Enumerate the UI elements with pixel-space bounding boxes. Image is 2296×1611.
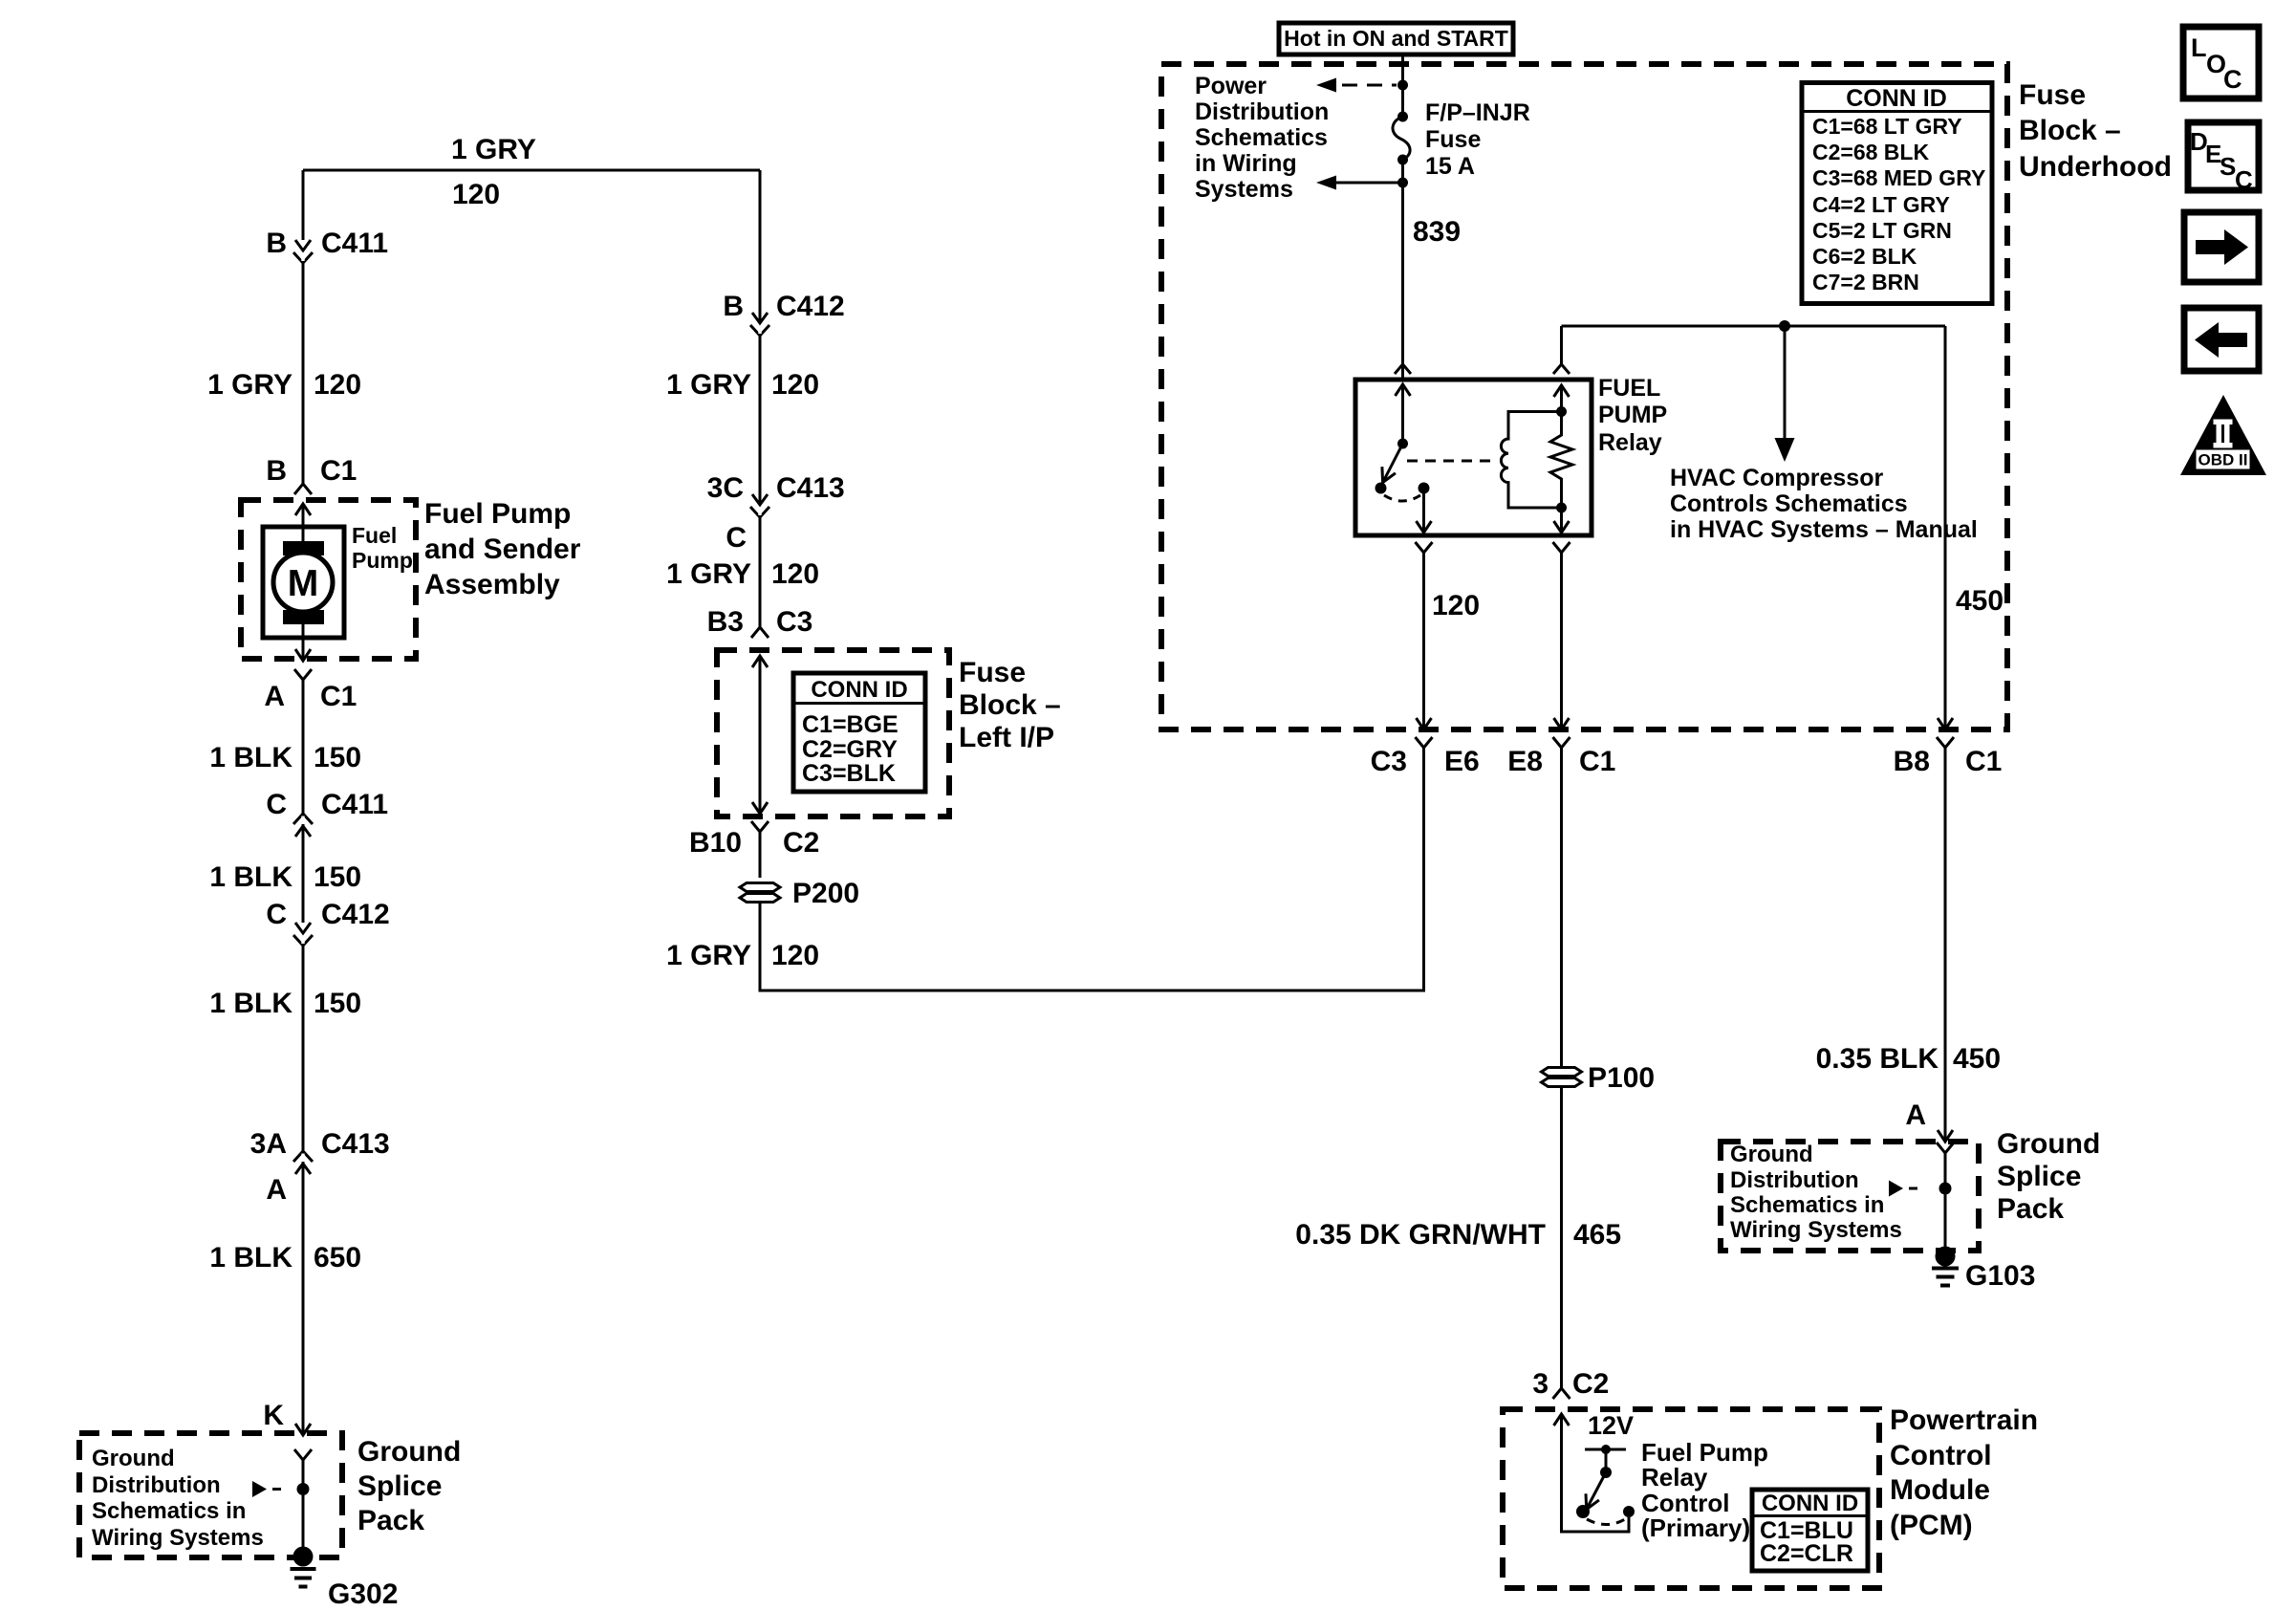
svg-text:C2=GRY: C2=GRY (802, 736, 898, 763)
svg-text:F/P–INJR: F/P–INJR (1425, 99, 1530, 126)
svg-text:G103: G103 (1965, 1260, 2035, 1292)
relay coil (1501, 412, 1561, 509)
svg-text:B: B (723, 291, 744, 322)
wire relay left output down to box edge (1417, 553, 1432, 729)
svg-text:C3: C3 (776, 606, 812, 638)
relay switch dashed arc (1384, 495, 1420, 501)
svg-text:Control: Control (1890, 1440, 1992, 1471)
svg-text:Fuse: Fuse (2019, 79, 2086, 111)
wire 839 down to relay (1401, 183, 1404, 380)
fuel pump output arrow down (295, 638, 311, 661)
switch blade PCM with arrowhead (1586, 1472, 1606, 1510)
CONN ID table (underhood) (1802, 83, 1992, 304)
motor brush top (283, 541, 324, 555)
svg-text:1 GRY: 1 GRY (207, 369, 292, 401)
12V supply bar (1585, 1448, 1626, 1451)
svg-text:C: C (726, 522, 747, 554)
fuel pump assembly dashed box (241, 500, 416, 659)
svg-text:A: A (264, 681, 285, 712)
junction dot branch (1397, 178, 1408, 188)
ground dot G302 (293, 1547, 314, 1567)
fuse dot bottom (1397, 155, 1408, 165)
PCM pin arrow and internal wire (1554, 1414, 1630, 1532)
svg-text:Distribution: Distribution (1730, 1167, 1859, 1193)
svg-text:Distribution: Distribution (1195, 98, 1329, 125)
svg-text:Schematics: Schematics (1195, 124, 1328, 151)
svg-text:450: 450 (1953, 1043, 2001, 1075)
fuse block internal wire with arrows (752, 656, 768, 814)
svg-text:C2: C2 (1572, 1368, 1609, 1400)
wire horizontal to B8 drop (1562, 325, 1946, 328)
svg-text:12V: 12V (1588, 1411, 1634, 1440)
svg-text:P200: P200 (792, 878, 859, 909)
svg-text:15 A: 15 A (1425, 153, 1475, 180)
svg-text:C412: C412 (776, 291, 845, 322)
CONN ID table (PCM) (1752, 1490, 1868, 1571)
svg-text:in Wiring: in Wiring (1195, 150, 1297, 177)
svg-text:120: 120 (1432, 590, 1480, 621)
svg-text:L: L (2191, 33, 2207, 62)
svg-text:PUMP: PUMP (1598, 402, 1667, 428)
svg-text:OBD II: OBD II (2199, 451, 2248, 469)
relay coil dot bottom (1556, 503, 1567, 513)
svg-text:C5=2 LT GRN: C5=2 LT GRN (1812, 218, 1952, 243)
grommet P100 (1542, 1068, 1582, 1087)
svg-text:3A: 3A (250, 1128, 287, 1160)
svg-text:150: 150 (314, 988, 361, 1019)
connector E8 C1 at box edge (1553, 737, 1570, 748)
svg-text:Block –: Block – (2019, 115, 2121, 146)
switch stem (1605, 1449, 1608, 1472)
ground symbol G103 (1932, 1269, 1959, 1286)
svg-text:450: 450 (1956, 585, 2004, 617)
switch pivot dot PCM (1600, 1467, 1612, 1478)
wire relay right pin up to horizontal (1560, 326, 1563, 364)
svg-text:120: 120 (771, 369, 819, 401)
connector B8 C1 at box edge (1937, 737, 1954, 748)
svg-text:CONN ID: CONN ID (1762, 1491, 1858, 1516)
svg-text:C1: C1 (320, 455, 357, 487)
icon right arrow box (2184, 212, 2259, 282)
connector C411 (B) (293, 240, 313, 263)
svg-text:Wiring Systems: Wiring Systems (1730, 1217, 1902, 1243)
svg-text:C3=BLK: C3=BLK (802, 760, 896, 787)
icon DESC box (2188, 122, 2259, 190)
svg-text:1 GRY: 1 GRY (666, 940, 751, 971)
solid branch to power distribution (1336, 182, 1403, 185)
wire col1 A to C411 (302, 680, 305, 826)
grommet P200 (740, 883, 780, 903)
CONN ID table (left I/P) (793, 673, 925, 792)
svg-text:C6=2 BLK: C6=2 BLK (1812, 244, 1917, 269)
connector B3 C3 chevron (751, 627, 769, 638)
svg-text:Schematics in: Schematics in (1730, 1192, 1884, 1218)
junction dot HVAC (1779, 320, 1790, 332)
svg-text:Pack: Pack (1997, 1193, 2064, 1225)
svg-text:(Primary): (Primary) (1641, 1513, 1750, 1542)
wire col1 C411 to C412 (302, 814, 305, 923)
svg-text:Ground: Ground (357, 1436, 461, 1468)
relay switch blade with arrowhead (1382, 444, 1403, 483)
wire B8 down into G103 (1938, 748, 1953, 1142)
wire col1 upper segment (302, 170, 305, 240)
svg-text:Controls Schematics: Controls Schematics (1670, 490, 1908, 517)
relay output chevron Y right (1553, 542, 1570, 553)
svg-text:B3: B3 (707, 606, 744, 638)
svg-text:1 GRY: 1 GRY (666, 369, 751, 401)
connector C413 (3C) down (750, 494, 769, 517)
PCM dashed box (1503, 1409, 1879, 1588)
svg-text:Distribution: Distribution (92, 1472, 221, 1498)
connector C413 (3A/A) up (293, 1151, 313, 1174)
relay output chevron Y left (1416, 542, 1433, 553)
switch contact right PCM (1623, 1506, 1635, 1517)
svg-text:C412: C412 (321, 899, 390, 930)
svg-text:C2=68 BLK: C2=68 BLK (1812, 140, 1929, 164)
svg-text:C1: C1 (1579, 746, 1615, 777)
svg-text:Left I/P: Left I/P (959, 722, 1054, 753)
wire col2 C413 to fuse block (759, 517, 762, 627)
wire E8/C1 down to P100 (1560, 748, 1563, 1067)
svg-text:B: B (266, 455, 287, 487)
svg-text:E8: E8 (1507, 746, 1543, 777)
svg-text:1 GRY: 1 GRY (666, 558, 751, 590)
svg-text:C3: C3 (1371, 746, 1407, 777)
svg-text:E6: E6 (1444, 746, 1480, 777)
svg-text:1 BLK: 1 BLK (209, 742, 292, 773)
svg-text:3: 3 (1532, 1368, 1549, 1400)
wire fuse to branch (1401, 160, 1404, 183)
svg-text:(PCM): (PCM) (1890, 1510, 1973, 1541)
connector C412 (C) down (293, 923, 313, 946)
wire from hot box to fuse (1401, 54, 1404, 117)
svg-text:C: C (2235, 165, 2253, 194)
svg-text:C413: C413 (321, 1128, 390, 1160)
motor brush bottom (283, 610, 324, 624)
svg-text:120: 120 (314, 369, 361, 401)
motor wire through (302, 527, 305, 638)
svg-text:Schematics in: Schematics in (92, 1498, 246, 1524)
relay switch contact dot left (1375, 483, 1387, 494)
wire into splice G302 (302, 1460, 305, 1557)
wire col1 C413 to ground splice (295, 1151, 311, 1435)
svg-text:Pump: Pump (352, 548, 413, 573)
wire relay right output down to box edge (1554, 553, 1570, 729)
connector C412 (B) down (750, 313, 769, 336)
svg-text:C: C (2223, 65, 2242, 94)
svg-text:150: 150 (314, 742, 361, 773)
svg-text:M: M (288, 563, 319, 604)
splice dot G302 (297, 1483, 310, 1495)
svg-text:P100: P100 (1588, 1062, 1655, 1094)
wire into splice G103 (1944, 1153, 1947, 1256)
fuel pump pin arrow up (295, 504, 311, 532)
ground dot G103 (1936, 1247, 1956, 1267)
relay output arrow down (1417, 490, 1432, 533)
relay dashed link to coil (1407, 460, 1497, 463)
svg-text:465: 465 (1573, 1219, 1621, 1251)
svg-text:Ground: Ground (1730, 1142, 1813, 1167)
relay coil dot top (1556, 406, 1567, 417)
svg-text:1 BLK: 1 BLK (209, 988, 292, 1019)
relay right pin bottom arrow (1554, 508, 1570, 533)
svg-text:CONN ID: CONN ID (811, 677, 907, 703)
svg-text:Block –: Block – (959, 689, 1061, 721)
connector C3 E6 at box edge (1416, 737, 1433, 748)
svg-text:Splice: Splice (357, 1470, 442, 1502)
splice entry Y (G302) (294, 1449, 312, 1460)
svg-text:A: A (1905, 1099, 1926, 1131)
12V dot (1601, 1445, 1611, 1454)
svg-text:C413: C413 (776, 472, 845, 504)
svg-text:3C: 3C (707, 472, 744, 504)
ground splice pack G302 dashed box (79, 1433, 342, 1557)
svg-text:Wiring Systems: Wiring Systems (92, 1525, 264, 1551)
svg-text:C7=2 BRN: C7=2 BRN (1812, 270, 1919, 294)
svg-text:Ground: Ground (92, 1446, 175, 1471)
svg-text:C1=BGE: C1=BGE (802, 711, 899, 738)
svg-text:0.35 BLK: 0.35 BLK (1816, 1043, 1939, 1075)
motor circle M (273, 553, 333, 612)
fuse element curve (1393, 117, 1410, 160)
svg-text:150: 150 (314, 861, 361, 893)
svg-text:C: C (266, 789, 287, 820)
svg-text:Relay: Relay (1598, 429, 1662, 456)
svg-text:B: B (266, 228, 287, 259)
svg-text:FUEL: FUEL (1598, 375, 1660, 402)
svg-text:C1: C1 (1965, 746, 2002, 777)
relay resistor (1550, 412, 1572, 509)
connector wire gaps (white) (303, 252, 760, 1162)
svg-text:Splice: Splice (1997, 1161, 2081, 1192)
HVAC branch arrow down (1784, 326, 1787, 439)
wire col2 C412 to C413 (759, 336, 762, 505)
svg-text:CONN ID: CONN ID (1846, 85, 1947, 112)
svg-text:HVAC Compressor: HVAC Compressor (1670, 465, 1883, 491)
splice dot G103 (1939, 1183, 1952, 1195)
svg-text:Pack: Pack (357, 1505, 424, 1536)
svg-text:C2: C2 (783, 827, 819, 859)
svg-text:Underhood: Underhood (2019, 151, 2172, 183)
relay switch pivot dot (1397, 439, 1408, 449)
junction dot top (1397, 80, 1408, 91)
svg-text:Relay: Relay (1641, 1463, 1708, 1491)
fuse block left I/P dashed box (717, 650, 949, 816)
svg-text:B10: B10 (689, 827, 742, 859)
wire P100 down to PCM (1560, 1087, 1563, 1388)
svg-text:C411: C411 (321, 228, 388, 259)
connector B C1 chevron (294, 484, 312, 494)
wire B8 down to box edge (1938, 326, 1953, 729)
svg-text:1 BLK: 1 BLK (209, 861, 292, 893)
svg-text:0.35 DK GRN/WHT: 0.35 DK GRN/WHT (1295, 1219, 1546, 1251)
splice pointer triangle G103 (1889, 1181, 1903, 1197)
svg-text:Ground: Ground (1997, 1128, 2100, 1160)
relay pin chevron left top (1395, 364, 1411, 374)
svg-text:Fuel: Fuel (352, 523, 397, 548)
svg-text:C4=2 LT GRY: C4=2 LT GRY (1812, 192, 1950, 217)
svg-text:120: 120 (452, 179, 500, 210)
relay left pin arrow up (1396, 384, 1411, 444)
wire col1 to fuel pump (302, 263, 305, 484)
fuse F/P-INJR dot top (1397, 112, 1408, 122)
connector B10 C2 female Y (751, 821, 769, 832)
arrow to power distribution (dashed branch) (1316, 78, 1336, 93)
wire P200 down and right to relay output (760, 748, 1424, 991)
Hot in ON and START box (1279, 23, 1513, 54)
icon OBD II triangle (2180, 395, 2266, 475)
svg-text:C2=CLR: C2=CLR (1760, 1540, 1853, 1567)
ground splice pack G103 dashed box (1721, 1142, 1979, 1251)
svg-text:in HVAC Systems – Manual: in HVAC Systems – Manual (1670, 516, 1978, 543)
icon LOC box (2183, 27, 2259, 98)
svg-text:K: K (263, 1400, 284, 1431)
svg-text:C1: C1 (320, 681, 357, 712)
svg-text:839: 839 (1413, 216, 1461, 248)
svg-text:1 GRY: 1 GRY (451, 134, 536, 165)
svg-text:Powertrain: Powertrain (1890, 1404, 2038, 1436)
svg-text:G302: G302 (328, 1578, 398, 1610)
svg-text:S: S (2220, 152, 2236, 181)
splice entry Y (G103) (1937, 1143, 1954, 1153)
svg-text:and Sender: and Sender (424, 533, 581, 565)
svg-text:Fuel Pump: Fuel Pump (424, 498, 571, 530)
switch contact left PCM (1576, 1505, 1590, 1518)
svg-text:C3=68 MED GRY: C3=68 MED GRY (1812, 165, 1985, 190)
svg-text:650: 650 (314, 1242, 361, 1274)
svg-text:Systems: Systems (1195, 176, 1293, 203)
relay switch contact dot right (1419, 483, 1430, 494)
svg-text:Assembly: Assembly (424, 569, 560, 600)
svg-text:120: 120 (771, 940, 819, 971)
svg-text:A: A (266, 1174, 287, 1206)
svg-text:C: C (266, 899, 287, 930)
motor outer box (263, 527, 344, 638)
dashed branch to power distribution (1342, 84, 1397, 87)
connector A C1 female Y (294, 669, 312, 680)
wire top horizontal 1 GRY 120 (303, 169, 760, 172)
splice pointer triangle G302 (252, 1481, 267, 1497)
relay right pin top arrow (1554, 385, 1570, 412)
wire B10 to P200 (759, 832, 762, 878)
wire col1 C412 to C413 (302, 946, 305, 1174)
svg-text:Fuse: Fuse (1425, 126, 1481, 153)
fuse block underhood dashed box (1161, 64, 2007, 729)
connector 3 C2 chevron (1553, 1388, 1570, 1399)
fuel pump relay box (1355, 380, 1592, 535)
svg-text:C1=68 LT GRY: C1=68 LT GRY (1812, 114, 1962, 139)
svg-text:Module: Module (1890, 1474, 1990, 1506)
switch dashed arc PCM (1587, 1519, 1625, 1525)
arrow solid branch (1316, 176, 1336, 190)
svg-text:B8: B8 (1894, 746, 1930, 777)
connector C411 (C) up (293, 814, 313, 837)
relay pin chevron right top (1553, 364, 1570, 374)
svg-text:Power: Power (1195, 73, 1267, 99)
svg-text:120: 120 (771, 558, 819, 590)
svg-text:1 BLK: 1 BLK (209, 1242, 292, 1274)
wire col2 top segment (759, 170, 762, 323)
ground symbol G302 (291, 1569, 316, 1587)
icon left arrow box (2184, 308, 2259, 371)
svg-text:Hot in ON and START: Hot in ON and START (1284, 26, 1508, 51)
svg-text:Fuse: Fuse (959, 657, 1026, 688)
svg-text:C411: C411 (321, 789, 388, 820)
